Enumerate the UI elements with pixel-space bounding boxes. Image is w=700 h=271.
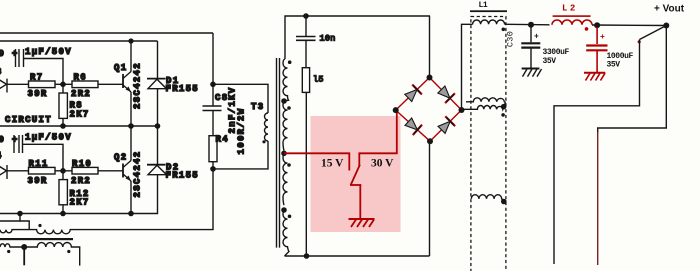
wire C9 to node xyxy=(24,59,64,85)
bridge edges red xyxy=(396,78,462,142)
svg-text:R10: R10 xyxy=(72,159,92,169)
node lower rail T1 tap xyxy=(17,211,23,217)
node mid rail D xyxy=(155,123,161,129)
svg-text:R11: R11 xyxy=(29,159,49,169)
svg-text:39R: 39R xyxy=(28,176,48,186)
wire R10 to Q2 base xyxy=(98,170,123,172)
svg-text:2SC4242: 2SC4242 xyxy=(133,62,143,109)
node L1 w3 joint xyxy=(501,199,507,205)
resistor R4 xyxy=(209,136,217,162)
resistor R6 xyxy=(72,81,98,88)
svg-text:L1: L1 xyxy=(479,1,488,10)
svg-text:1µF/50V: 1µF/50V xyxy=(25,47,72,57)
svg-text:Q2: Q2 xyxy=(114,153,127,163)
wire D3 to R7 xyxy=(7,83,29,85)
ground symbol red xyxy=(349,219,375,227)
node Vout xyxy=(663,23,669,29)
svg-text:9 +: 9 + xyxy=(0,49,19,59)
capacitor C30 3300uF xyxy=(521,25,540,69)
ground 1000uF red xyxy=(584,72,605,74)
wire 30V feed red xyxy=(359,111,397,167)
switch blade xyxy=(351,165,360,185)
svg-text:35V: 35V xyxy=(607,61,621,70)
label + Vout xyxy=(654,4,685,15)
inductor L2 red xyxy=(552,20,592,25)
svg-text:2R2: 2R2 xyxy=(71,89,91,99)
label L2 xyxy=(562,4,578,14)
node Q1 collector on rail B xyxy=(128,38,133,43)
svg-text:+ Vout: + Vout xyxy=(654,4,685,15)
svg-text:39R: 39R xyxy=(28,89,48,99)
choke L1 winding 3 xyxy=(471,195,502,202)
svg-text:4: 4 xyxy=(0,151,3,161)
svg-text:T3: T3 xyxy=(251,102,264,112)
resistor R7 xyxy=(29,81,56,88)
transformer T1 winding bottom xyxy=(0,242,80,265)
svg-text:10n: 10n xyxy=(320,34,336,44)
wire R8 bottom xyxy=(62,118,64,126)
label 30 V xyxy=(371,158,394,170)
wire rail B (y=41) xyxy=(0,40,158,42)
transformer T1 core xyxy=(0,238,73,240)
node L1 w2 joint xyxy=(501,104,507,110)
node T1 phase dot bottom right xyxy=(67,250,70,253)
resistor R8 xyxy=(59,93,67,118)
diode bridge xyxy=(393,75,465,145)
svg-text:+: + xyxy=(600,33,605,42)
node T3 centre tap xyxy=(281,151,287,157)
node T3 section joint 2 xyxy=(281,207,287,213)
node lower rail R12 xyxy=(60,211,66,217)
wire T3 aux bottom lead xyxy=(213,141,268,169)
svg-text:R6: R6 xyxy=(74,73,87,83)
node row1 junction xyxy=(60,82,66,88)
wire R8 top xyxy=(62,84,64,93)
wire R7-R6 xyxy=(55,83,72,85)
diode D4 xyxy=(0,163,7,179)
node 1000uF junction xyxy=(594,22,600,28)
node L1 w2 phase dot xyxy=(501,113,505,117)
diode D3 xyxy=(0,77,7,93)
choke L1 winding 1 xyxy=(473,20,505,24)
svg-text:2SC4242: 2SC4242 xyxy=(133,151,143,198)
capacitor 10n xyxy=(296,16,316,68)
svg-text:C8: C8 xyxy=(215,93,228,103)
bridge diode BR xyxy=(437,116,456,135)
svg-text:FR155: FR155 xyxy=(166,84,200,94)
node T3 phase dot 2 xyxy=(287,106,291,110)
ground C30 xyxy=(522,69,542,77)
node L1 w1 phase dot xyxy=(502,28,506,32)
bridge diode BL xyxy=(404,116,422,135)
svg-text:15 V: 15 V xyxy=(321,158,344,170)
bridge bottom wire xyxy=(429,141,431,256)
bridge top wire xyxy=(429,16,431,78)
wire return path B xyxy=(554,40,640,265)
bridge diode TL xyxy=(403,84,422,103)
label L1 underline xyxy=(470,10,507,12)
label 35V right xyxy=(607,61,621,70)
resistor R12 xyxy=(59,180,67,205)
diode D1 FR155 xyxy=(147,41,167,126)
svg-text:+: + xyxy=(534,33,539,42)
wire Q2 collector xyxy=(130,126,132,161)
pink highlight region xyxy=(311,116,401,232)
node snubber tap xyxy=(210,82,216,88)
svg-text:3300uF: 3300uF xyxy=(543,48,570,57)
resistor R10 xyxy=(72,167,98,174)
transformer T3 main winding section4 xyxy=(283,210,289,256)
svg-text:FR155: FR155 xyxy=(166,171,200,181)
wire mid rail xyxy=(0,125,159,127)
label 1000uF xyxy=(607,52,634,61)
node 10n branch top xyxy=(303,13,309,19)
node T3 phase dot 1 xyxy=(288,60,292,64)
transistor Q1 xyxy=(123,72,131,93)
choke L1 winding 2b xyxy=(464,106,504,110)
svg-text:2K7: 2K7 xyxy=(70,110,90,120)
transistor Q2 xyxy=(123,161,131,182)
wire 15V tap red xyxy=(284,153,349,170)
svg-text:35V: 35V xyxy=(543,57,557,66)
node mid rail R8 xyxy=(60,123,66,129)
svg-text:1µF/50V: 1µF/50V xyxy=(25,133,72,143)
transformer T3 main winding section2 xyxy=(283,101,288,151)
wire snubber return xyxy=(212,169,214,230)
capacitor C9 1uF/50V xyxy=(16,49,24,67)
svg-text:0 +: 0 + xyxy=(0,135,19,145)
wire blade to ground xyxy=(359,185,361,219)
node lower rail Q2 xyxy=(128,211,134,217)
wire Q2 emitter xyxy=(130,181,132,214)
svg-text:L2: L2 xyxy=(562,4,578,14)
wire rail A top-left (y=33) xyxy=(0,32,213,34)
switch blade base tick xyxy=(350,184,361,186)
node bridge right xyxy=(459,107,465,113)
transformer T3 core xyxy=(277,58,280,248)
wire L1 out to C30 node xyxy=(505,23,550,26)
svg-text:R4: R4 xyxy=(216,135,229,145)
wire T3 aux top lead xyxy=(213,84,268,113)
transformer T1 winding top xyxy=(0,230,214,234)
transformer T3 main winding section1 xyxy=(283,59,289,101)
node T1 phase dot top xyxy=(38,224,41,227)
capacitor 1000uF red xyxy=(584,27,608,81)
wire snubber branch top xyxy=(212,33,214,84)
wire T1 bottom tap lead xyxy=(23,247,25,265)
wire R11-R10 xyxy=(55,170,72,172)
svg-text:30 V: 30 V xyxy=(371,158,394,170)
node L2 phase dot red xyxy=(585,27,589,31)
svg-text:CIRCUIT: CIRCUIT xyxy=(5,115,52,125)
node red tap on diagonal xyxy=(638,40,641,43)
label L2 underline xyxy=(553,15,591,17)
wire D4 to R11 xyxy=(7,170,29,172)
node T3 aux phase dot xyxy=(262,140,265,143)
wire Q1 emitter xyxy=(130,92,132,126)
svg-text:l5: l5 xyxy=(313,75,324,85)
wire Vout diagonal xyxy=(640,26,667,40)
wire top rail primary xyxy=(285,16,430,59)
wire return path A dark red part xyxy=(597,132,599,265)
wire L5 bottom to rail xyxy=(305,92,307,256)
wire R12 top xyxy=(62,171,64,180)
wire bridge right to L1 xyxy=(462,24,473,110)
svg-text:Q1: Q1 xyxy=(114,63,127,73)
node bridge left xyxy=(393,107,399,113)
svg-text:R7: R7 xyxy=(30,73,43,83)
node T1 phase dot bottom left xyxy=(7,250,10,253)
wire R4 bottom xyxy=(212,162,214,169)
label 15 V xyxy=(321,158,344,170)
transformer T3 aux winding xyxy=(265,113,268,141)
wire R12 bottom xyxy=(62,205,64,214)
capacitor C8 xyxy=(203,84,222,135)
wire L2 to Vout xyxy=(592,24,666,27)
wire T1 tap staircase xyxy=(0,214,20,222)
node T3 phase dot 4 xyxy=(288,215,292,219)
choke L1 winding 2a xyxy=(466,98,505,107)
node bridge bottom xyxy=(427,138,433,144)
node T1 bottom tap xyxy=(21,244,27,250)
wire R6 to Q1 base xyxy=(98,83,123,85)
svg-text:C30: C30 xyxy=(506,31,516,47)
svg-text:3: 3 xyxy=(0,67,3,77)
resistor R11 xyxy=(29,167,56,174)
inductor L5 xyxy=(302,68,309,93)
bridge diode TR xyxy=(436,85,455,104)
wire lower rail xyxy=(0,175,158,214)
node R4 bottom junction xyxy=(210,166,216,172)
node mid rail Q xyxy=(128,123,134,129)
node bottom rail 10n branch xyxy=(304,253,310,259)
transformer T3 main winding section3 xyxy=(283,153,288,205)
wire Q1 collector xyxy=(130,41,132,72)
node bridge top xyxy=(427,75,433,81)
label 1000uF plus xyxy=(600,33,605,42)
node T3 section joint 1 xyxy=(281,98,287,104)
svg-text:100R/2W: 100R/2W xyxy=(237,108,247,155)
svg-text:2K7: 2K7 xyxy=(70,198,90,208)
node T3 phase dot 3 xyxy=(287,163,291,167)
wire return path A black part xyxy=(598,26,667,134)
node row2 junction xyxy=(60,168,66,174)
diode D2 FR155 xyxy=(147,126,167,175)
wire bottom rail xyxy=(285,255,430,257)
choke L1 dashed box xyxy=(471,17,506,271)
node C30 junction xyxy=(528,22,534,28)
red selector and wires xyxy=(284,111,397,228)
svg-text:2R2: 2R2 xyxy=(71,176,91,186)
wire C10 to node xyxy=(23,144,64,171)
capacitor C10 1uF/50V xyxy=(14,135,23,153)
